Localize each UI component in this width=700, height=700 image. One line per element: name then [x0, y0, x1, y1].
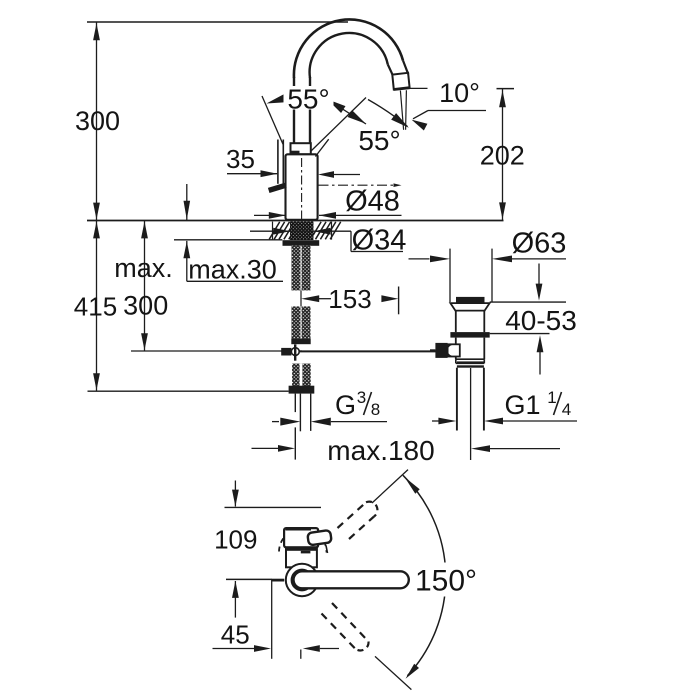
svg-text:202: 202: [480, 141, 525, 171]
svg-text:109: 109: [214, 525, 257, 555]
svg-text:55°: 55°: [287, 84, 329, 115]
svg-text:3: 3: [357, 388, 366, 407]
svg-text:4: 4: [562, 400, 571, 419]
svg-text:1: 1: [547, 388, 556, 407]
svg-text:415: 415: [74, 292, 117, 322]
svg-text:300: 300: [123, 291, 168, 321]
svg-text:max.: max.: [114, 253, 173, 283]
svg-text:Ø63: Ø63: [512, 227, 567, 259]
svg-text:max.180: max.180: [327, 435, 434, 466]
svg-text:10°: 10°: [439, 78, 480, 108]
svg-text:55°: 55°: [358, 125, 400, 156]
svg-text:G: G: [335, 390, 356, 420]
svg-text:Ø48: Ø48: [345, 186, 400, 218]
svg-text:35: 35: [226, 144, 255, 174]
svg-text:153: 153: [328, 284, 371, 314]
svg-text:G1: G1: [504, 390, 540, 420]
svg-text:40-53: 40-53: [505, 305, 577, 336]
svg-text:45: 45: [221, 619, 250, 649]
svg-text:8: 8: [371, 400, 380, 419]
svg-text:Ø34: Ø34: [352, 225, 407, 257]
svg-text:150°: 150°: [415, 564, 477, 597]
svg-text:max.30: max.30: [188, 255, 277, 285]
svg-text:300: 300: [75, 106, 120, 136]
